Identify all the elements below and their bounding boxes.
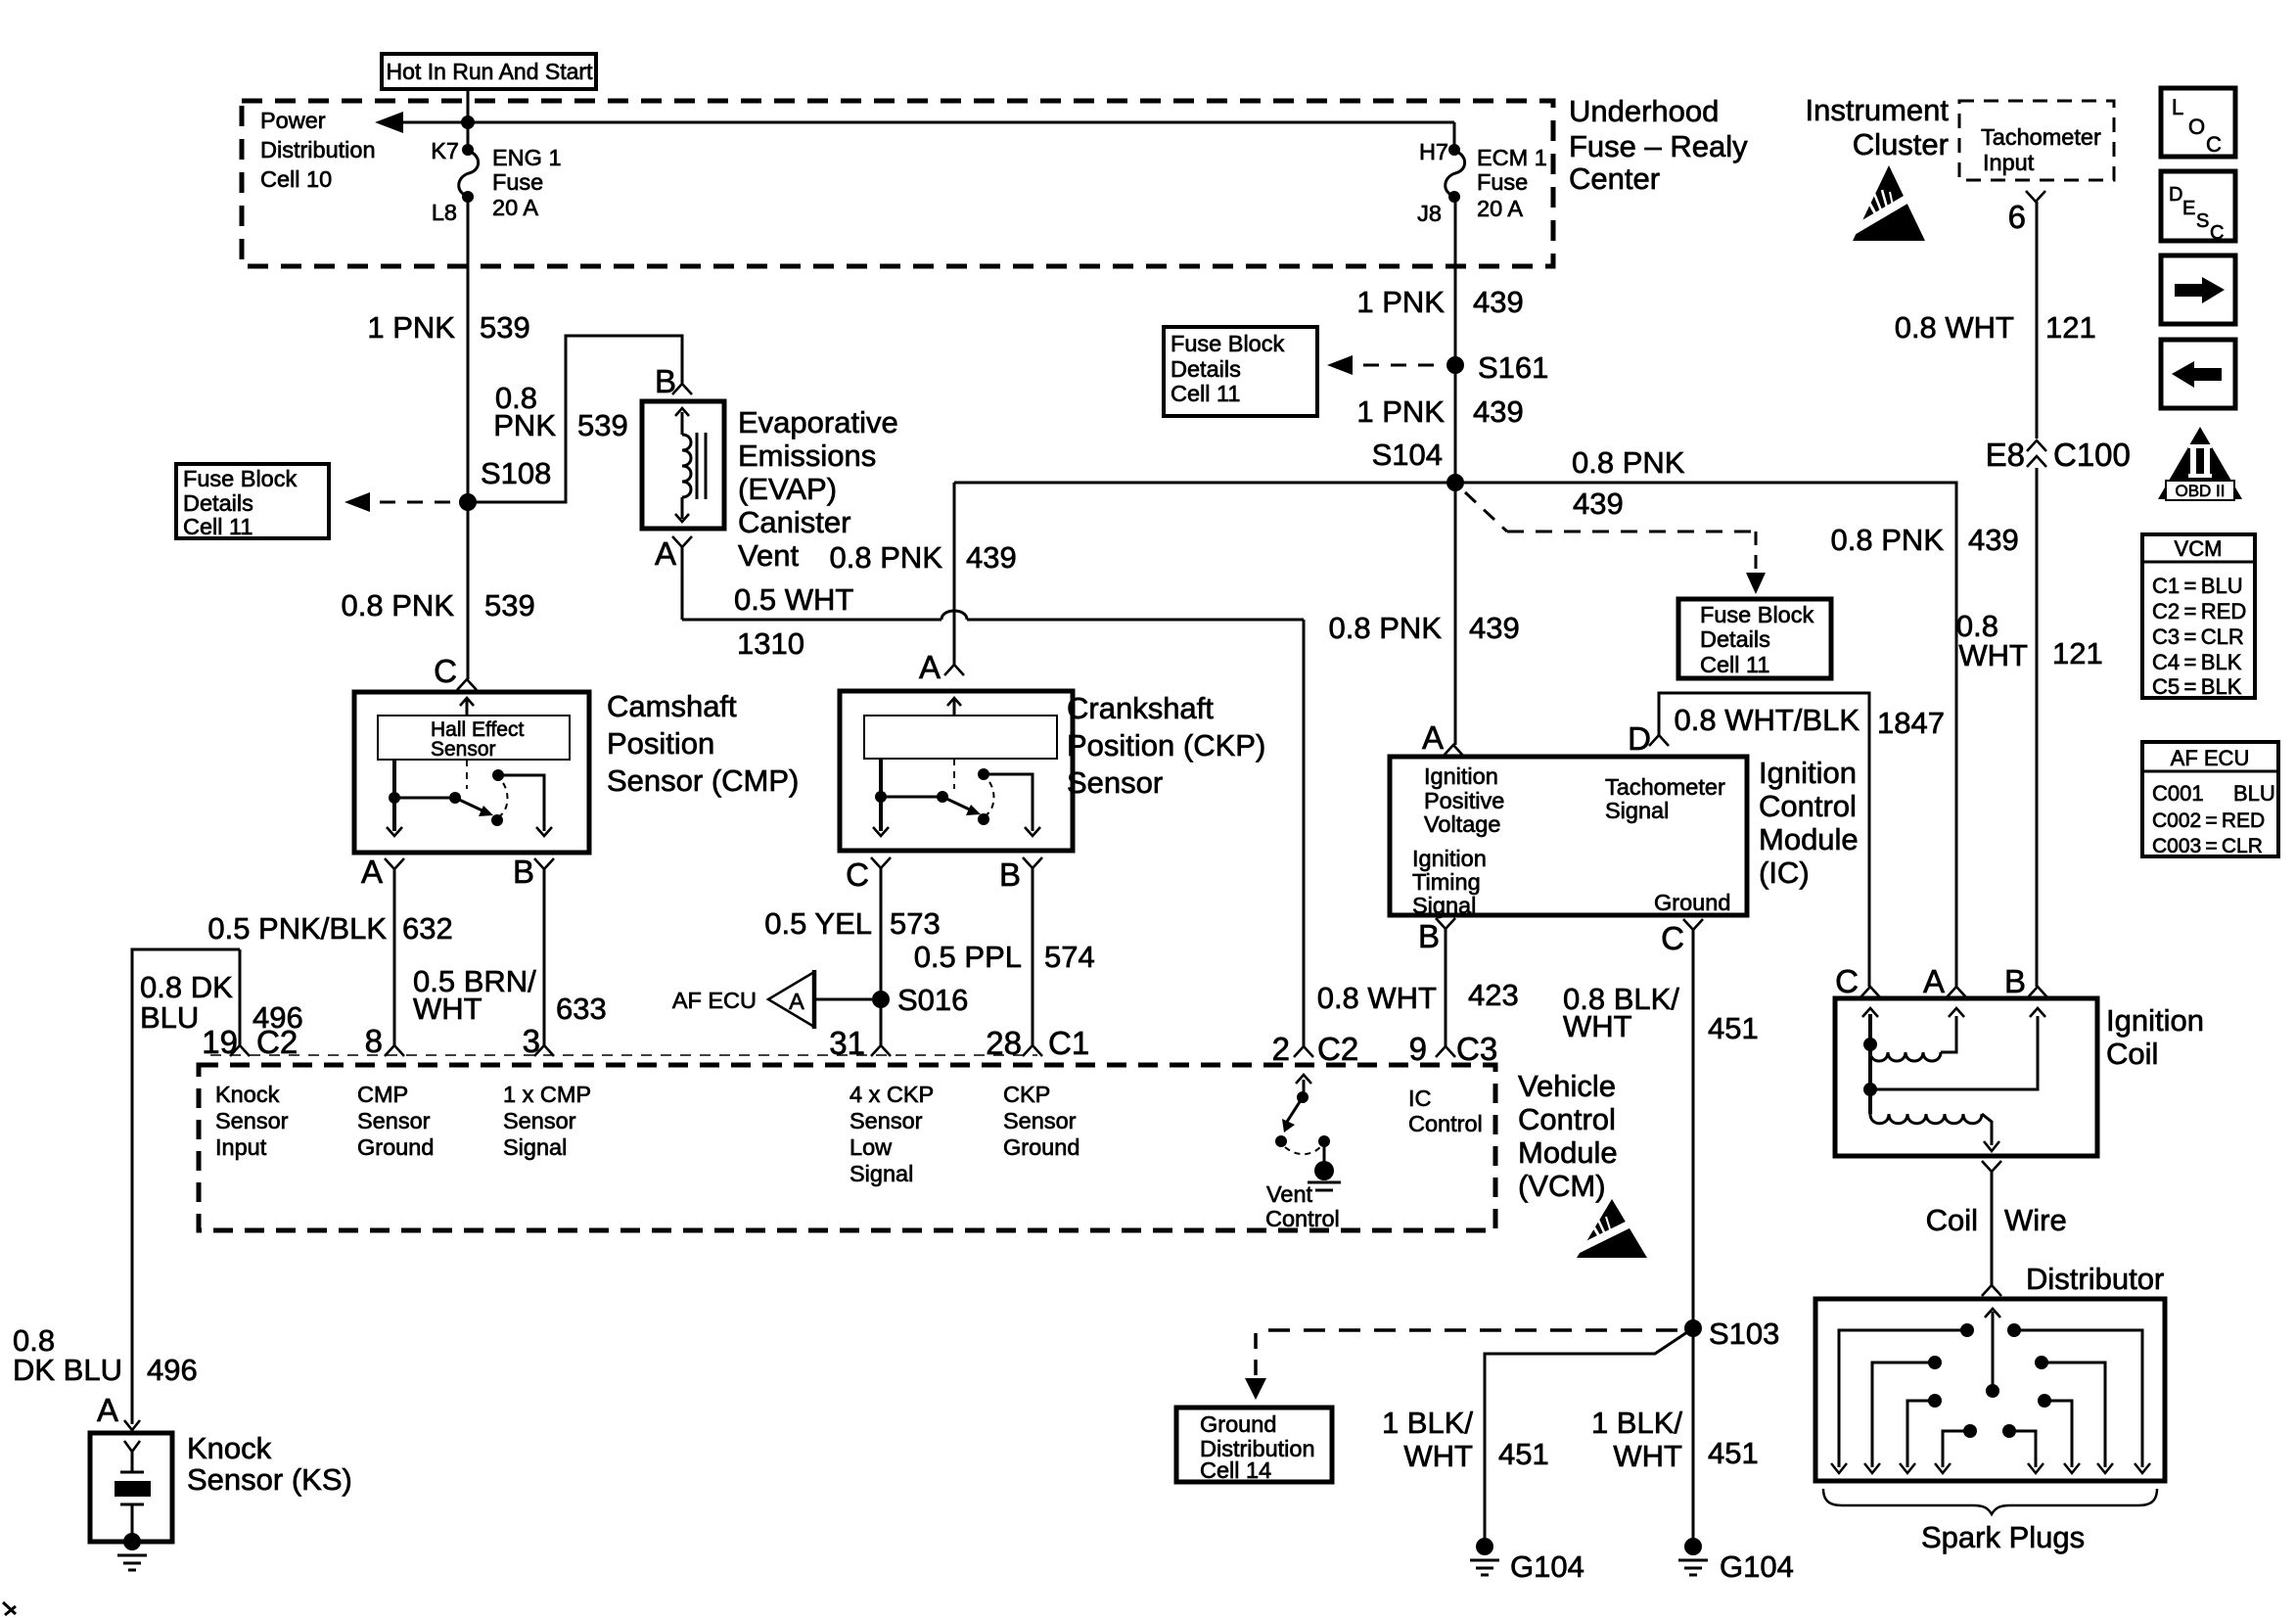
svg-text:A: A: [919, 649, 941, 685]
svg-text:S108: S108: [481, 456, 551, 490]
svg-text:Position: Position: [607, 726, 714, 761]
svg-text:Distributor: Distributor: [2026, 1262, 2164, 1296]
svg-text:1 PNK: 1 PNK: [1356, 394, 1445, 429]
svg-text:C: C: [434, 653, 457, 689]
svg-text:Sensor: Sensor: [431, 738, 496, 761]
svg-text:Position (CKP): Position (CKP): [1067, 728, 1265, 762]
svg-text:S: S: [2196, 210, 2209, 232]
svg-text:Signal: Signal: [503, 1134, 567, 1160]
svg-text:439: 439: [1968, 523, 2019, 557]
svg-text:Fuse Block: Fuse Block: [183, 466, 297, 491]
svg-text:AF ECU: AF ECU: [2171, 746, 2250, 770]
svg-text:Module: Module: [1759, 822, 1859, 856]
svg-text:1 PNK: 1 PNK: [1356, 285, 1445, 319]
svg-text:Emissions: Emissions: [738, 439, 876, 473]
svg-text:S161: S161: [1478, 350, 1548, 385]
svg-text:WHT: WHT: [413, 992, 482, 1026]
svg-text:8: 8: [365, 1023, 383, 1059]
svg-text:Cluster: Cluster: [1853, 127, 1949, 162]
svg-text:Hot In Run And Start: Hot In Run And Start: [387, 59, 594, 84]
svg-text:Signal: Signal: [850, 1161, 913, 1186]
svg-text:496: 496: [253, 1000, 303, 1035]
svg-text:C4 = BLK: C4 = BLK: [2152, 650, 2242, 674]
svg-text:Input: Input: [215, 1134, 267, 1160]
svg-text:E: E: [2182, 198, 2195, 219]
svg-text:Vent: Vent: [738, 538, 799, 573]
svg-text:B: B: [513, 854, 534, 890]
svg-text:B: B: [2004, 963, 2026, 999]
svg-text:Low: Low: [850, 1134, 893, 1160]
svg-text:2: 2: [1272, 1031, 1290, 1067]
svg-text:WHT: WHT: [1958, 638, 2028, 672]
svg-text:0.8 PNK: 0.8 PNK: [342, 588, 455, 623]
svg-text:Sensor: Sensor: [1003, 1108, 1077, 1133]
svg-text:0.8 PNK: 0.8 PNK: [1572, 445, 1685, 480]
svg-text:Distribution: Distribution: [260, 137, 376, 162]
svg-text:Ignition: Ignition: [1759, 756, 1857, 790]
svg-text:439: 439: [1573, 486, 1624, 521]
svg-text:1 x CMP: 1 x CMP: [503, 1082, 591, 1107]
svg-text:L8: L8: [432, 200, 457, 225]
svg-text:439: 439: [1473, 285, 1524, 319]
svg-text:19: 19: [202, 1024, 238, 1060]
svg-text:D: D: [1628, 720, 1651, 757]
svg-text:439: 439: [1469, 611, 1520, 645]
svg-text:Ground: Ground: [1200, 1411, 1276, 1437]
svg-text:IC: IC: [1408, 1086, 1432, 1111]
svg-text:0.8 DK: 0.8 DK: [140, 970, 233, 1004]
svg-text:Tachometer: Tachometer: [1605, 774, 1725, 800]
svg-text:C1: C1: [1048, 1025, 1089, 1061]
svg-text:1310: 1310: [737, 626, 804, 661]
svg-text:Vehicle: Vehicle: [1518, 1069, 1616, 1103]
svg-text:B: B: [999, 856, 1021, 893]
svg-text:CMP: CMP: [357, 1082, 408, 1107]
svg-text:C: C: [1835, 963, 1859, 999]
svg-text:A: A: [789, 989, 804, 1014]
svg-text:Details: Details: [1700, 626, 1770, 652]
svg-text:6: 6: [2008, 199, 2026, 235]
svg-text:Sensor (CMP): Sensor (CMP): [607, 763, 799, 798]
svg-text:Fuse Block: Fuse Block: [1171, 331, 1284, 356]
svg-text:632: 632: [402, 911, 453, 946]
svg-text:C: C: [2210, 222, 2224, 244]
svg-text:Crankshaft: Crankshaft: [1067, 691, 1214, 725]
svg-text:Ground: Ground: [1003, 1134, 1079, 1160]
svg-text:439: 439: [1473, 394, 1524, 429]
svg-text:Fuse: Fuse: [1477, 169, 1528, 195]
svg-text:Positive: Positive: [1424, 788, 1504, 813]
svg-text:Fuse Block: Fuse Block: [1700, 602, 1814, 627]
svg-text:WHT: WHT: [1613, 1439, 1682, 1473]
svg-text:Center: Center: [1569, 162, 1660, 196]
svg-text:574: 574: [1044, 940, 1095, 974]
svg-text:S104: S104: [1372, 438, 1443, 472]
svg-text:Input: Input: [1983, 150, 2035, 175]
svg-text:Evaporative: Evaporative: [738, 405, 898, 439]
svg-text:496: 496: [147, 1353, 198, 1387]
svg-text:BLU: BLU: [140, 1000, 199, 1035]
svg-text:DK BLU: DK BLU: [13, 1353, 122, 1387]
svg-text:Coil: Coil: [1926, 1203, 1978, 1237]
svg-text:K7: K7: [431, 138, 459, 163]
svg-text:Control: Control: [1408, 1111, 1483, 1136]
svg-text:Sensor (KS): Sensor (KS): [187, 1462, 352, 1497]
svg-text:H7: H7: [1419, 139, 1448, 164]
svg-text:Power: Power: [260, 108, 326, 133]
svg-text:633: 633: [556, 992, 607, 1026]
svg-text:Ground: Ground: [357, 1134, 434, 1160]
svg-text:BLU: BLU: [2233, 781, 2275, 806]
svg-text:Cell 10: Cell 10: [260, 166, 332, 192]
svg-text:539: 539: [480, 310, 530, 345]
svg-text:1 BLK/: 1 BLK/: [1591, 1406, 1682, 1440]
svg-text:OBD II: OBD II: [2175, 482, 2225, 500]
svg-text:20 A: 20 A: [492, 195, 538, 220]
svg-text:Knock: Knock: [215, 1082, 280, 1107]
svg-text:Voltage: Voltage: [1424, 811, 1500, 837]
svg-text:Control: Control: [1759, 789, 1857, 823]
svg-text:CKP: CKP: [1003, 1082, 1050, 1107]
svg-text:A: A: [1923, 963, 1945, 999]
svg-text:573: 573: [890, 906, 941, 941]
svg-text:1847: 1847: [1877, 706, 1945, 740]
svg-text:451: 451: [1708, 1011, 1759, 1045]
svg-text:0.8 WHT/BLK: 0.8 WHT/BLK: [1675, 703, 1860, 737]
svg-text:C5 = BLK: C5 = BLK: [2152, 674, 2242, 699]
svg-text:S103: S103: [1709, 1317, 1779, 1351]
svg-text:C2: C2: [1317, 1031, 1358, 1067]
svg-text:G104: G104: [1720, 1549, 1794, 1584]
svg-text:WHT: WHT: [1563, 1009, 1632, 1043]
svg-text:Signal: Signal: [1605, 798, 1669, 823]
svg-text:C100: C100: [2053, 437, 2131, 473]
svg-text:Vent: Vent: [1266, 1181, 1313, 1207]
svg-text:Details: Details: [183, 490, 253, 516]
svg-text:WHT: WHT: [1403, 1439, 1473, 1473]
svg-text:439: 439: [966, 540, 1017, 575]
svg-text:(VCM): (VCM): [1518, 1169, 1606, 1203]
svg-text:4 x CKP: 4 x CKP: [850, 1082, 934, 1107]
svg-text:J8: J8: [1417, 201, 1442, 226]
svg-text:A: A: [361, 854, 383, 890]
svg-text:Ignition: Ignition: [2106, 1003, 2204, 1038]
svg-text:28: 28: [986, 1025, 1022, 1061]
svg-text:ECM 1: ECM 1: [1477, 145, 1547, 170]
svg-text:C002 = RED: C002 = RED: [2152, 809, 2265, 832]
svg-text:Ground: Ground: [1654, 890, 1730, 915]
svg-text:C: C: [2206, 132, 2222, 157]
svg-text:0.8 PNK: 0.8 PNK: [830, 540, 943, 575]
svg-text:Module: Module: [1518, 1135, 1618, 1170]
svg-text:Sensor: Sensor: [215, 1108, 289, 1133]
svg-text:Coil: Coil: [2106, 1037, 2158, 1071]
svg-text:E8: E8: [1986, 437, 2025, 473]
svg-text:Canister: Canister: [738, 505, 850, 539]
svg-text:0.8 PNK: 0.8 PNK: [1831, 523, 1945, 557]
svg-text:Fuse: Fuse: [492, 169, 543, 195]
svg-text:Timing: Timing: [1412, 869, 1481, 895]
svg-text:L: L: [2172, 95, 2183, 119]
svg-text:Ignition: Ignition: [1412, 846, 1487, 871]
svg-text:Signal: Signal: [1412, 893, 1476, 918]
svg-text:B: B: [1418, 918, 1440, 954]
svg-text:PNK: PNK: [493, 408, 556, 442]
svg-text:A: A: [655, 535, 676, 572]
svg-text:VCM: VCM: [2175, 536, 2223, 561]
svg-text:1 BLK/: 1 BLK/: [1382, 1406, 1473, 1440]
svg-text:Ignition: Ignition: [1424, 763, 1498, 789]
svg-text:Sensor: Sensor: [357, 1108, 431, 1133]
svg-text:0.5 YEL: 0.5 YEL: [764, 906, 872, 941]
svg-text:Instrument: Instrument: [1806, 93, 1950, 127]
svg-text:9: 9: [1409, 1031, 1427, 1067]
svg-text:20 A: 20 A: [1477, 196, 1523, 221]
svg-text:B: B: [655, 363, 676, 399]
svg-text:A: A: [1422, 719, 1444, 756]
svg-text:Fuse – Realy: Fuse – Realy: [1569, 129, 1748, 163]
svg-text:31: 31: [829, 1025, 865, 1061]
svg-text:0.8 WHT: 0.8 WHT: [1895, 310, 2014, 345]
svg-text:C: C: [846, 856, 869, 893]
svg-text:S016: S016: [897, 983, 968, 1017]
svg-text:Underhood: Underhood: [1569, 94, 1719, 128]
svg-text:Cell 11: Cell 11: [1171, 381, 1240, 406]
svg-text:C: C: [1661, 920, 1684, 956]
svg-text:Spark Plugs: Spark Plugs: [1921, 1520, 2085, 1554]
svg-text:C001: C001: [2152, 781, 2204, 806]
svg-text:0.5 WHT: 0.5 WHT: [734, 582, 853, 617]
svg-text:423: 423: [1468, 978, 1519, 1012]
svg-text:Cell 11: Cell 11: [1700, 652, 1769, 677]
svg-text:Sensor: Sensor: [850, 1108, 923, 1133]
svg-text:O: O: [2188, 115, 2205, 139]
svg-text:Knock: Knock: [187, 1431, 272, 1465]
svg-text:G104: G104: [1510, 1549, 1584, 1584]
svg-text:0.5 PPL: 0.5 PPL: [914, 940, 1022, 974]
svg-text:539: 539: [484, 588, 535, 623]
svg-text:0.8 WHT: 0.8 WHT: [1317, 981, 1437, 1015]
svg-text:D: D: [2169, 184, 2182, 206]
svg-text:Sensor: Sensor: [1067, 765, 1163, 800]
svg-text:A: A: [97, 1392, 118, 1428]
svg-text:C3 = CLR: C3 = CLR: [2152, 624, 2244, 649]
svg-text:C3: C3: [1456, 1031, 1497, 1067]
svg-text:451: 451: [1708, 1436, 1759, 1470]
svg-text:AF ECU: AF ECU: [672, 988, 757, 1013]
svg-text:Wire: Wire: [2004, 1203, 2067, 1237]
svg-text:(EVAP): (EVAP): [738, 472, 837, 506]
svg-text:Sensor: Sensor: [503, 1108, 576, 1133]
svg-text:121: 121: [2045, 310, 2096, 345]
svg-text:C1 = BLU: C1 = BLU: [2152, 574, 2243, 598]
svg-text:Tachometer: Tachometer: [1981, 124, 2101, 150]
svg-text:0.5 PNK/BLK: 0.5 PNK/BLK: [207, 911, 387, 946]
svg-text:0.8 PNK: 0.8 PNK: [1329, 611, 1443, 645]
svg-text:Control: Control: [1265, 1206, 1340, 1231]
svg-text:451: 451: [1498, 1437, 1549, 1471]
svg-text:539: 539: [577, 408, 628, 442]
svg-text:3: 3: [523, 1023, 540, 1059]
svg-text:Camshaft: Camshaft: [607, 689, 737, 723]
svg-text:Control: Control: [1518, 1102, 1616, 1136]
svg-text:C2 = RED: C2 = RED: [2152, 599, 2246, 624]
svg-text:ENG 1: ENG 1: [492, 145, 562, 170]
svg-text:Cell 14: Cell 14: [1200, 1457, 1271, 1483]
svg-text:(IC): (IC): [1759, 855, 1810, 890]
svg-text:121: 121: [2052, 636, 2103, 670]
svg-text:1 PNK: 1 PNK: [367, 310, 455, 345]
svg-text:C003 = CLR: C003 = CLR: [2152, 835, 2263, 857]
svg-text:Details: Details: [1171, 356, 1241, 382]
svg-text:Cell 11: Cell 11: [183, 514, 253, 539]
